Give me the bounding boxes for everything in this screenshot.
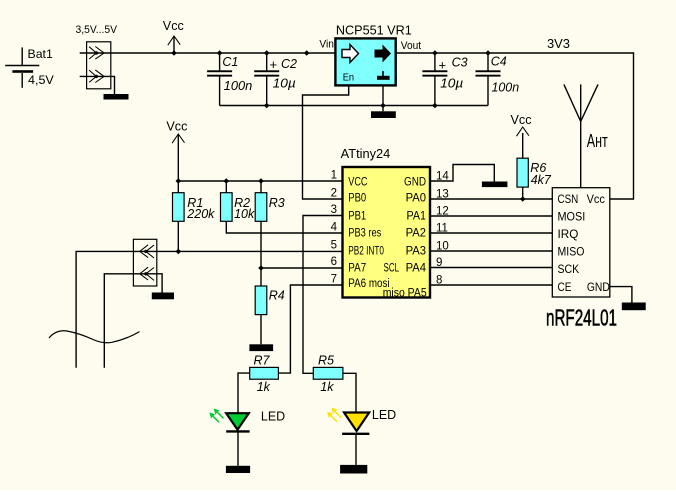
svg-text:+: + (270, 57, 278, 72)
svg-text:7: 7 (331, 273, 337, 285)
svg-text:Ант: Ант (587, 131, 608, 151)
svg-text:GND: GND (587, 280, 610, 294)
svg-text:Vcc: Vcc (166, 120, 187, 134)
svg-text:3: 3 (331, 204, 337, 216)
svg-text:12: 12 (436, 206, 449, 218)
svg-text:C2: C2 (281, 57, 297, 71)
svg-text:ATtiny24: ATtiny24 (341, 147, 391, 161)
svg-text:MOSI: MOSI (558, 210, 586, 224)
svg-text:R5: R5 (318, 354, 334, 368)
svg-text:10k: 10k (234, 207, 255, 221)
svg-text:PB3 res: PB3 res (348, 228, 381, 240)
svg-text:SCK: SCK (558, 262, 580, 276)
svg-text:LED: LED (372, 407, 396, 422)
svg-text:5: 5 (331, 239, 337, 251)
svg-text:Vout: Vout (401, 40, 421, 52)
svg-text:MISO: MISO (558, 245, 585, 259)
svg-text:IRQ: IRQ (558, 227, 579, 241)
svg-text:LED: LED (261, 409, 285, 424)
svg-text:PB1: PB1 (348, 211, 366, 223)
svg-text:SCL: SCL (384, 263, 400, 275)
svg-text:miso PA5: miso PA5 (383, 287, 427, 299)
svg-text:R7: R7 (254, 354, 271, 368)
svg-text:R4: R4 (269, 289, 285, 303)
svg-text:Vcc: Vcc (511, 113, 532, 127)
svg-text:PA2: PA2 (406, 228, 426, 240)
svg-text:10: 10 (436, 241, 449, 253)
svg-text:PA3: PA3 (406, 246, 426, 258)
svg-text:R3: R3 (269, 196, 285, 210)
svg-text:2: 2 (331, 187, 337, 199)
svg-text:6: 6 (331, 256, 337, 268)
svg-text:10µ: 10µ (440, 77, 463, 91)
svg-text:4k7: 4k7 (531, 173, 552, 187)
svg-text:CE: CE (558, 280, 572, 294)
svg-text:1k: 1k (320, 380, 334, 394)
svg-text:Vcc: Vcc (587, 192, 605, 206)
svg-text:GND: GND (404, 177, 426, 189)
svg-text:nRF24L01: nRF24L01 (546, 305, 617, 331)
svg-text:1k: 1k (257, 380, 271, 394)
svg-text:14: 14 (436, 171, 449, 183)
svg-text:C1: C1 (222, 55, 238, 69)
svg-text:C4: C4 (491, 55, 507, 69)
svg-text:C3: C3 (452, 56, 468, 70)
svg-text:PA1: PA1 (407, 211, 427, 223)
svg-text:+: + (439, 58, 447, 73)
svg-text:Bat1: Bat1 (28, 47, 54, 61)
svg-text:10µ: 10µ (273, 77, 296, 91)
svg-text:220k: 220k (186, 207, 215, 221)
svg-text:3,5V...5V: 3,5V...5V (76, 24, 118, 36)
svg-text:1: 1 (331, 169, 337, 181)
svg-text:PB0: PB0 (348, 193, 366, 205)
svg-text:13: 13 (436, 189, 449, 201)
svg-text:PA7: PA7 (348, 263, 366, 275)
svg-text:CSN: CSN (558, 192, 579, 206)
svg-text:100n: 100n (492, 81, 520, 95)
svg-text:3V3: 3V3 (547, 37, 570, 51)
svg-text:PA0: PA0 (406, 193, 426, 205)
svg-text:4,5V: 4,5V (28, 73, 54, 87)
svg-text:VCC: VCC (348, 177, 367, 189)
svg-text:Vcc: Vcc (163, 19, 184, 33)
svg-text:En: En (343, 72, 355, 84)
svg-text:4: 4 (331, 221, 338, 233)
svg-text:9: 9 (436, 257, 442, 269)
svg-text:PB2 INT0: PB2 INT0 (348, 246, 384, 258)
svg-text:NCP551 VR1: NCP551 VR1 (336, 24, 412, 38)
svg-text:Vin: Vin (319, 39, 334, 51)
svg-text:8: 8 (436, 275, 442, 287)
svg-text:11: 11 (436, 223, 448, 235)
svg-text:100n: 100n (224, 79, 253, 93)
svg-text:PA4: PA4 (406, 263, 427, 275)
